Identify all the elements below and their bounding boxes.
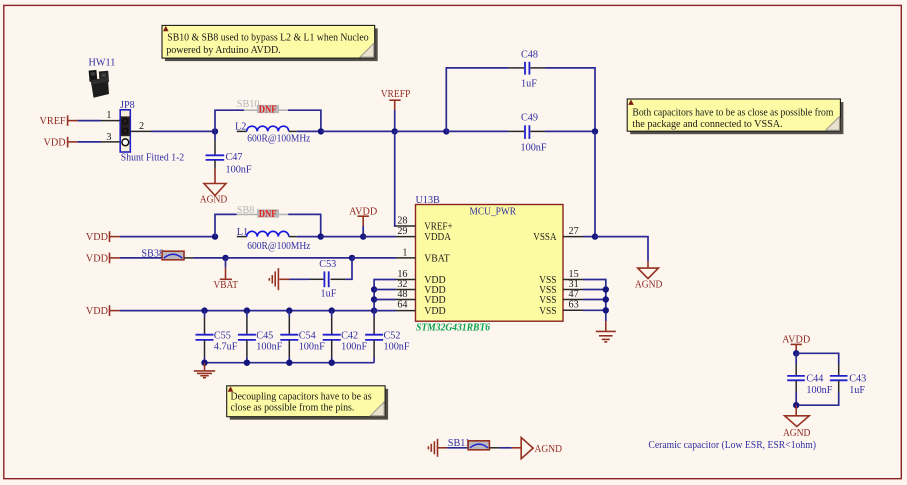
note box 3 — [227, 386, 388, 420]
wire bus to pin64 — [374, 310, 396, 312]
MCU pin 15 VSS — [539, 269, 583, 286]
ground (rotated earth) at SB11 — [428, 439, 447, 457]
svg-text:C54: C54 — [299, 331, 316, 342]
svg-text:600R@100MHz: 600R@100MHz — [247, 241, 311, 252]
wire JP8 pin2 to node A — [130, 130, 215, 132]
junction bottom C54 — [286, 360, 292, 366]
wire C53 drop — [345, 258, 352, 279]
svg-text:STM32G431RBT6: STM32G431RBT6 — [416, 322, 491, 333]
junction VSS pin31 — [603, 286, 609, 292]
port VDD (row VDD to JP8 pin3) — [44, 137, 78, 149]
svg-text:HW11: HW11 — [89, 58, 116, 69]
capacitor C42 — [323, 311, 368, 363]
svg-text:the package and connected to V: the package and connected to VSSA. — [632, 119, 782, 130]
svg-text:VBAT: VBAT — [424, 253, 450, 264]
svg-text:VSS: VSS — [539, 306, 557, 317]
MCU pin 28 VREF+ — [396, 215, 453, 232]
svg-text:VDD: VDD — [44, 137, 66, 148]
ground earth under C55 — [194, 363, 215, 378]
svg-text:VREF+: VREF+ — [424, 222, 453, 233]
wire L1 to junction — [297, 236, 321, 238]
svg-text:Shunt Fitted 1-2: Shunt Fitted 1-2 — [121, 153, 184, 164]
svg-text:3: 3 — [106, 132, 111, 143]
svg-text:C49: C49 — [521, 112, 538, 123]
capacitor C43 — [830, 364, 866, 396]
capacitor C52 — [365, 311, 410, 363]
svg-text:100nF: 100nF — [256, 342, 282, 353]
MCU U13B MCU_PWR — [416, 195, 564, 333]
capacitor C45 — [238, 311, 283, 363]
MCU pin 64 VDD — [396, 300, 446, 317]
svg-text:27: 27 — [569, 226, 579, 237]
capacitor C48 — [509, 49, 545, 89]
junction bottom C45 — [244, 360, 250, 366]
value label L2 600R@100MHz — [247, 133, 311, 144]
wire bottom bus of caps — [205, 362, 375, 364]
svg-text:2: 2 — [139, 121, 144, 132]
svg-text:C47: C47 — [226, 152, 243, 163]
junction bus C54 — [286, 307, 292, 313]
junction bottom C55 — [201, 360, 207, 366]
inductor L2 — [235, 122, 297, 133]
wire C43 branch — [796, 353, 839, 364]
JP8 pin number 3 — [106, 132, 111, 143]
MCU pin 16 VDD — [396, 269, 446, 286]
svg-text:63: 63 — [569, 300, 579, 311]
ground (rotated earth) at C53 — [269, 268, 289, 290]
svg-text:C55: C55 — [214, 331, 231, 342]
svg-text:C48: C48 — [521, 49, 538, 60]
junction riser pin32 — [371, 286, 377, 292]
svg-text:VDD: VDD — [86, 306, 108, 317]
svg-text:VDD: VDD — [86, 232, 108, 243]
svg-text:28: 28 — [397, 215, 407, 226]
wire C53 to ground — [290, 278, 311, 280]
ground earth under VSS — [596, 321, 616, 342]
note box 1 — [162, 25, 378, 61]
svg-text:29: 29 — [397, 226, 407, 237]
svg-text:SB10: SB10 — [237, 99, 260, 110]
wire bypass SB10 right leg — [288, 110, 321, 131]
svg-text:DNF: DNF — [259, 209, 277, 220]
wire VDD to JP8 pin3 — [78, 141, 121, 143]
wire bypass SB10 left leg — [215, 110, 244, 131]
svg-text:VDD: VDD — [424, 306, 446, 317]
wire C49 to right junction — [545, 130, 595, 132]
svg-text:C53: C53 — [319, 259, 336, 270]
svg-text:600R@100MHz: 600R@100MHz — [247, 133, 311, 144]
svg-text:SB11: SB11 — [448, 438, 470, 449]
svg-text:100nF: 100nF — [226, 164, 252, 175]
solder bridge SB38 (fitted) — [141, 248, 184, 259]
solder bridge SB8 (DNF, gray) — [237, 205, 288, 220]
junction VBAT node — [222, 255, 228, 261]
jumper cap HW11 icon — [89, 70, 109, 98]
capacitor C49 — [509, 112, 547, 153]
junction bus C52 riser — [371, 307, 377, 313]
svg-text:Both capacitors have to be as: Both capacitors have to be as close as p… — [632, 107, 833, 118]
junction VSSA node — [592, 233, 598, 239]
power flag VREFP — [381, 89, 411, 131]
svg-text:AGND: AGND — [783, 428, 811, 439]
capacitor C47 — [206, 131, 252, 175]
junction node B — [212, 233, 218, 239]
MCU pin 63 VSS — [539, 300, 583, 317]
inductor L1 — [237, 227, 297, 238]
wire riser to pin48 — [374, 299, 396, 301]
svg-text:48: 48 — [397, 289, 407, 300]
svg-text:SB38: SB38 — [141, 248, 164, 259]
wire bypass SB8 right leg — [288, 214, 321, 236]
wire C53 node to MCU pin 1 — [352, 257, 396, 259]
MCU pin 27 VSSA — [533, 226, 583, 243]
junction AVDD cluster bottom — [793, 402, 799, 408]
svg-text:1uF: 1uF — [321, 289, 337, 300]
svg-text:SB8: SB8 — [237, 205, 255, 216]
svg-text:C43: C43 — [849, 373, 866, 384]
ground AGND at VSSA — [635, 261, 663, 290]
svg-text:C42: C42 — [341, 331, 358, 342]
wire AVDD node to MCU pin 29 — [363, 236, 396, 238]
MCU pin 1 VBAT — [396, 247, 450, 264]
wire L1 junction to AVDD node — [321, 236, 364, 238]
wire VBAT node to C53 node — [226, 257, 353, 259]
svg-text:VDDA: VDDA — [424, 232, 451, 243]
JP8 pin number 2 — [139, 121, 144, 132]
wire C43 bottom to junction — [796, 392, 839, 405]
svg-text:100nF: 100nF — [299, 342, 325, 353]
wire SB38 to VBAT node — [184, 257, 226, 259]
svg-text:VSS: VSS — [539, 295, 557, 306]
svg-text:47: 47 — [569, 289, 579, 300]
junction VREFP node — [392, 128, 398, 134]
MCU pin 32 VDD — [396, 279, 446, 296]
junction bottom C42 — [329, 360, 335, 366]
port VREF — [40, 115, 78, 127]
svg-text:1: 1 — [402, 247, 407, 258]
junction bus C55 — [201, 307, 207, 313]
svg-text:1uF: 1uF — [521, 79, 537, 90]
MCU pin 47 VSS — [539, 289, 583, 306]
wire VDD port to node B — [120, 236, 215, 238]
port VDD (row VBAT) — [86, 253, 120, 265]
wire VDD port to SB38 — [120, 257, 162, 259]
wire C49 row left — [446, 130, 508, 132]
value label L1 600R@100MHz — [247, 241, 311, 252]
JP8 pin number 1 — [106, 110, 111, 121]
junction C53 node — [349, 255, 355, 261]
wire riser to VDD pins — [374, 280, 396, 311]
capacitor C44 — [787, 353, 833, 405]
wire ground to SB11 — [447, 447, 468, 449]
solder bridge SB10 (DNF, gray) — [237, 99, 288, 115]
power port AGND (arrow) — [521, 438, 562, 459]
junction bus C42 — [329, 307, 335, 313]
port VDD (bus row) — [86, 305, 120, 317]
junction L2 out — [318, 128, 324, 134]
svg-text:MCU_PWR: MCU_PWR — [470, 207, 517, 218]
wire VSS pins to riser — [583, 280, 606, 322]
svg-text:VREF: VREF — [40, 116, 66, 127]
ground AGND under C44 — [783, 405, 811, 439]
svg-text:C44: C44 — [806, 373, 823, 384]
wire VSSA node to AGND — [595, 237, 648, 262]
jumper JP8 — [120, 100, 184, 164]
solder bridge SB11 (fitted) — [448, 438, 490, 450]
svg-text:VREFP: VREFP — [381, 89, 411, 100]
svg-text:SB10 & SB8 used to bypass L2 &: SB10 & SB8 used to bypass L2 & L1 when N… — [167, 33, 368, 44]
power flag AVDD (right cluster) — [782, 335, 810, 354]
capacitor C55 — [196, 311, 238, 363]
MCU pin 29 VDDA — [396, 226, 451, 243]
wire VREFP node to C48/C49 branch — [395, 130, 447, 132]
junction VSS pin47 — [603, 296, 609, 302]
ground AGND under C47 — [200, 169, 228, 206]
junction right drop — [592, 128, 598, 134]
jumper cap HW11 label — [89, 58, 116, 69]
capacitor C54 — [280, 311, 325, 363]
svg-text:64: 64 — [397, 300, 407, 311]
svg-text:100nF: 100nF — [521, 143, 547, 154]
MCU pin 31 VSS — [539, 279, 583, 296]
svg-text:Ceramic capacitor (Low ESR, ES: Ceramic capacitor (Low ESR, ESR<1ohm) — [648, 440, 816, 451]
svg-text:close as possible from the pin: close as possible from the pins. — [231, 403, 355, 414]
svg-text:C52: C52 — [384, 331, 401, 342]
wire VSSA to junction — [583, 236, 595, 238]
junction riser pin48 — [371, 296, 377, 302]
MCU pin 48 VDD — [396, 289, 446, 306]
power flag VBAT — [213, 258, 238, 291]
wire bypass SB8 left leg — [215, 214, 237, 236]
svg-text:DNF: DNF — [259, 104, 277, 115]
svg-text:powered by Arduino AVDD.: powered by Arduino AVDD. — [166, 45, 281, 56]
wire L2 to junction — [297, 130, 321, 132]
capacitor C53 — [310, 259, 345, 300]
wire SB11 to AGND port — [489, 447, 521, 449]
power flag AVDD — [349, 207, 377, 237]
junction C48 branch — [443, 128, 449, 134]
svg-text:VDD: VDD — [86, 254, 108, 265]
svg-text:100nF: 100nF — [341, 342, 367, 353]
wire C48 branch up and right — [446, 68, 508, 131]
junction node A — [212, 128, 218, 134]
svg-text:AGND: AGND — [535, 444, 563, 455]
svg-text:1: 1 — [106, 110, 111, 121]
wire C48 to right drop — [545, 68, 595, 131]
svg-text:4.7uF: 4.7uF — [214, 342, 238, 353]
svg-text:C45: C45 — [256, 331, 273, 342]
svg-text:VDD: VDD — [424, 295, 446, 306]
junction AVDD cluster top — [793, 350, 799, 356]
port VDD (row L1) — [86, 231, 120, 243]
wire right drop down to VSSA — [594, 131, 596, 236]
svg-text:VBAT: VBAT — [213, 280, 238, 291]
svg-text:100nF: 100nF — [384, 342, 410, 353]
svg-text:1uF: 1uF — [849, 385, 865, 396]
junction VSS pin63 — [603, 307, 609, 313]
junction bus C45 — [244, 307, 250, 313]
wire riser to pin32 — [374, 289, 396, 291]
junction AVDD node — [360, 233, 366, 239]
junction L1 out — [318, 233, 324, 239]
svg-text:Decoupling capacitors have to: Decoupling capacitors have to be as — [231, 392, 372, 403]
wire VREF to JP8 pin1 — [78, 120, 121, 122]
svg-text:VSSA: VSSA — [533, 232, 557, 243]
svg-text:100nF: 100nF — [806, 385, 832, 396]
svg-text:AGND: AGND — [200, 194, 228, 205]
note box 2 — [627, 99, 843, 134]
wire VDD bus — [120, 310, 374, 312]
svg-text:AGND: AGND — [635, 280, 663, 291]
wire L2 junction to VREFP — [321, 130, 395, 132]
annotation ceramic capacitor — [648, 440, 816, 451]
wire VREFP node down to MCU pin 28 — [395, 131, 396, 226]
